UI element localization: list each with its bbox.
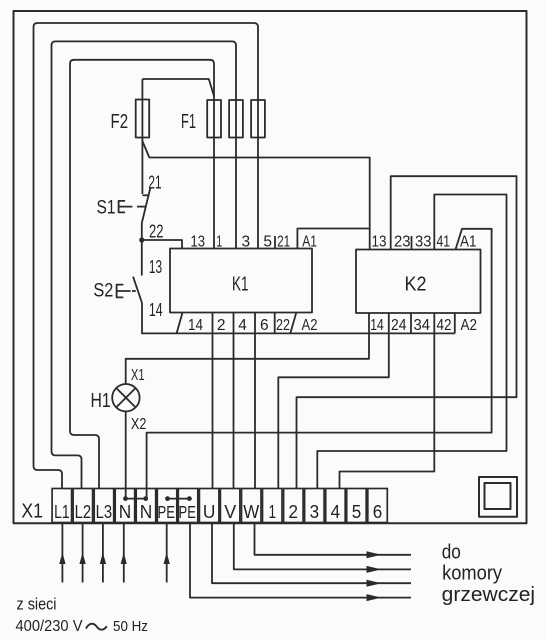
arrowhead PE (164, 553, 170, 565)
wire K2 terminal 42 to strip 4 (340, 313, 435, 489)
wire K2 terminal 14 to lamp H1 X1 (126, 313, 369, 384)
svg-text:13: 13 (191, 234, 206, 251)
sine symbol (86, 624, 107, 630)
terminal X1 cell PE (1st) (157, 489, 177, 523)
wire F2 output to K2 terminal 13 (142, 141, 369, 250)
arrowhead L2 (79, 553, 85, 565)
svg-text:3: 3 (310, 501, 320, 522)
wire strip W to heating chamber (255, 523, 412, 555)
arrowhead to heating chamber W (367, 551, 382, 558)
svg-text:14: 14 (188, 317, 203, 334)
svg-text:14: 14 (149, 300, 163, 320)
svg-text:22: 22 (149, 222, 164, 242)
svg-text:1: 1 (269, 501, 277, 522)
arrow from mains into L3 (102, 523, 104, 583)
terminal strip X1 cells (52, 489, 387, 523)
switch S2 actuator E symbol (117, 285, 131, 298)
svg-text:X2: X2 (131, 416, 147, 433)
svg-text:grzewczej: grzewczej (442, 584, 535, 606)
jumper N-N (126, 498, 146, 500)
svg-text:N: N (119, 501, 132, 522)
terminal X1 cell 2 (284, 489, 304, 523)
wire F2 tap from fuse F1a top (142, 79, 214, 96)
terminal X1 cell PE (2nd) (178, 489, 198, 523)
lamp H1 cross (116, 388, 135, 407)
svg-text:U: U (203, 501, 216, 522)
switch S1 actuator E symbol (119, 201, 133, 213)
terminal X1 cell L1 (52, 489, 72, 523)
svg-text:K2: K2 (405, 272, 427, 295)
arrow from mains into L1 (61, 523, 63, 583)
svg-text:do: do (442, 541, 461, 563)
terminal X1 cell L3 (94, 489, 114, 523)
arrowhead N (121, 553, 127, 565)
jumper PE-PE (168, 498, 190, 500)
arrows from mains (59, 523, 381, 602)
svg-text:L3: L3 (96, 501, 113, 522)
border frame (14, 11, 527, 523)
lamp H1 circle (112, 384, 139, 411)
terminal X1 cell V (220, 489, 240, 523)
wire K1 terminal 4 to strip V (233, 313, 235, 489)
arrowhead to heating chamber V (367, 566, 382, 573)
wire strip PE to heating chamber (190, 523, 411, 598)
fuse F1 body a (207, 100, 221, 138)
terminal tick K1 22 (274, 313, 276, 334)
wire K1 terminal 6 to strip W (254, 313, 256, 489)
wire K1 terminal 2 to strip U (212, 313, 214, 489)
wire branch to K1 coil A1 (297, 229, 369, 249)
terminal tick K2 33 (411, 236, 413, 250)
enclosure symbol inner (485, 483, 511, 509)
svg-text:24: 24 (391, 317, 407, 334)
svg-text:L1: L1 (54, 501, 70, 522)
svg-text:z sieci: z sieci (17, 595, 57, 613)
svg-text:PE: PE (158, 502, 176, 522)
svg-text:V: V (224, 501, 237, 522)
svg-text:H1: H1 (91, 390, 111, 412)
svg-text:L2: L2 (75, 501, 92, 522)
terminal X1 cell W (242, 489, 262, 523)
arrowhead to heating chamber U (367, 580, 382, 587)
svg-text:33: 33 (415, 234, 432, 251)
terminal X1 cell U (199, 489, 219, 523)
arrowhead L3 (100, 553, 106, 565)
svg-text:23: 23 (394, 234, 411, 251)
terminal tick K1 21 (274, 236, 276, 249)
wire K2 coil A1 to strip N (147, 229, 492, 497)
fuse F2 body (136, 100, 150, 138)
wire slant into K1 terminal 14 (177, 313, 183, 334)
terminal X1 cell L2 (73, 489, 93, 523)
wire strip V to heating chamber (234, 523, 411, 570)
svg-text:K1: K1 (232, 272, 249, 295)
svg-text:2: 2 (289, 501, 299, 522)
svg-text:komory: komory (442, 563, 502, 585)
svg-text:2: 2 (217, 317, 226, 334)
arrowhead L1 (59, 553, 65, 565)
svg-text:A2: A2 (461, 317, 478, 334)
svg-text:21: 21 (148, 173, 161, 193)
svg-text:PE: PE (179, 502, 197, 522)
switch S1 NC seat (142, 194, 149, 196)
terminal X1 cell 4 (326, 489, 346, 523)
arrow from mains into L2 (82, 523, 84, 583)
fuse F1 body b (229, 100, 243, 138)
arrowhead to heating chamber PE (367, 594, 382, 601)
svg-text:A2: A2 (302, 317, 318, 334)
node junction dot (139, 237, 144, 242)
enclosure symbol outer (479, 477, 517, 517)
svg-text:50 Hz: 50 Hz (113, 618, 148, 635)
switch S1 actuator dashed link (137, 206, 146, 208)
wire K2 terminal 24 to strip 1 (278, 313, 389, 489)
terminal tick K2 34 (410, 313, 412, 333)
svg-text:14: 14 (370, 317, 384, 334)
svg-text:42: 42 (437, 317, 452, 334)
wire lamp H1 X2 to strip N (125, 411, 127, 497)
wire S1 to S2 (141, 223, 143, 276)
wire K2 terminal 41 to strip 3 (317, 195, 506, 489)
wire L3 phase: strip L3 up, across, down to fuse F1a (70, 60, 214, 489)
contactor K2 box (356, 250, 481, 314)
svg-text:13: 13 (149, 257, 162, 277)
svg-text:13: 13 (372, 234, 387, 251)
terminal X1 cell N (1st) (115, 489, 135, 523)
terminal X1 cell 3 (305, 489, 325, 523)
wire L1 phase: strip L1 up left side, across top, down to fuse F1c (34, 23, 259, 489)
svg-text:X1: X1 (21, 501, 43, 523)
svg-text:5: 5 (263, 234, 272, 251)
arrow from mains into PE (166, 523, 168, 583)
svg-text:6: 6 (260, 317, 269, 334)
svg-text:F1: F1 (181, 110, 196, 133)
switch S2 actuator dashed link (132, 290, 136, 292)
wire through fuse F2 down to S1 (141, 79, 143, 194)
terminal X1 cell 5 (347, 489, 367, 523)
svg-text:N: N (140, 501, 153, 522)
svg-text:34: 34 (414, 317, 431, 334)
wire junction to K1 terminal 13 (142, 240, 182, 249)
switch S1 blade (142, 188, 151, 223)
svg-text:41: 41 (437, 234, 451, 251)
switch S2 blade (133, 277, 142, 303)
svg-text:A1: A1 (460, 234, 477, 251)
terminal tick K2 A2 (454, 313, 456, 333)
svg-text:F2: F2 (111, 110, 129, 133)
wire L2 phase: strip L2 up, across, down to fuse F1b (52, 41, 237, 488)
fuse F1 body c (251, 100, 265, 138)
svg-text:3: 3 (242, 234, 251, 251)
svg-text:S1: S1 (97, 197, 116, 219)
terminal X1 cell 6 (368, 489, 388, 523)
svg-text:21: 21 (277, 234, 290, 251)
wire strip U to heating chamber (212, 523, 411, 584)
svg-text:5: 5 (352, 501, 362, 522)
arrow from mains into N (123, 523, 125, 583)
contactor K1 box (170, 249, 312, 313)
svg-text:6: 6 (373, 501, 383, 522)
wire slant into K1 terminal A2 (290, 313, 296, 334)
wire K2 terminal 23 to strip 2 (297, 176, 517, 488)
terminal X1 cell 1 (263, 489, 283, 523)
svg-text:A1: A1 (302, 234, 317, 251)
svg-text:4: 4 (238, 317, 247, 334)
svg-text:4: 4 (331, 501, 341, 522)
terminal X1 cell N (2nd) (136, 489, 156, 523)
svg-text:S2: S2 (93, 280, 113, 302)
svg-text:22: 22 (276, 317, 290, 334)
svg-text:X1: X1 (131, 367, 145, 384)
svg-text:400/230 V: 400/230 V (16, 618, 84, 635)
wire S2 bottom bus to K1 14 / A2 and K2 A2 (142, 303, 455, 333)
svg-text:1: 1 (216, 234, 222, 251)
svg-text:W: W (243, 501, 259, 522)
